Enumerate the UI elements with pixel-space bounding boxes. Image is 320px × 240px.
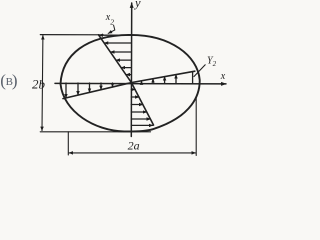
dimension 2a: dimension line with arrows <box>69 152 196 154</box>
left arrow group (tau_y ordinates, point down) <box>66 83 113 98</box>
leader line for label Y2 <box>194 65 205 77</box>
dimension 2a: extension line right <box>195 97 197 156</box>
x axis <box>55 82 226 85</box>
dimension 2b: extension line bottom <box>40 131 150 133</box>
shallow chord: tau_y diagram line <box>63 71 195 98</box>
closing ordinate at right chord end <box>192 72 194 84</box>
svg-text:2a: 2a <box>128 139 140 153</box>
ellipse cross-section outline <box>61 35 200 132</box>
right arrow group (tau_y ordinates, point up) <box>142 72 193 84</box>
bottom-right arrow group (tau_x ordinates, point right) <box>131 90 153 126</box>
leader arrow for label x2 <box>108 25 115 33</box>
steep chord: tau_x diagram line <box>99 35 154 125</box>
dimension 2b: extension line top <box>40 34 103 36</box>
dimension 2b: dimension line with arrows <box>41 36 44 131</box>
y axis <box>130 3 132 137</box>
dimension 2a: extension line left <box>67 132 69 155</box>
svg-text:x: x <box>220 71 226 82</box>
svg-text:2b: 2b <box>32 76 46 91</box>
svg-text:y: y <box>133 0 141 10</box>
top-left arrow group (tau_x ordinates, point left) <box>99 35 136 74</box>
